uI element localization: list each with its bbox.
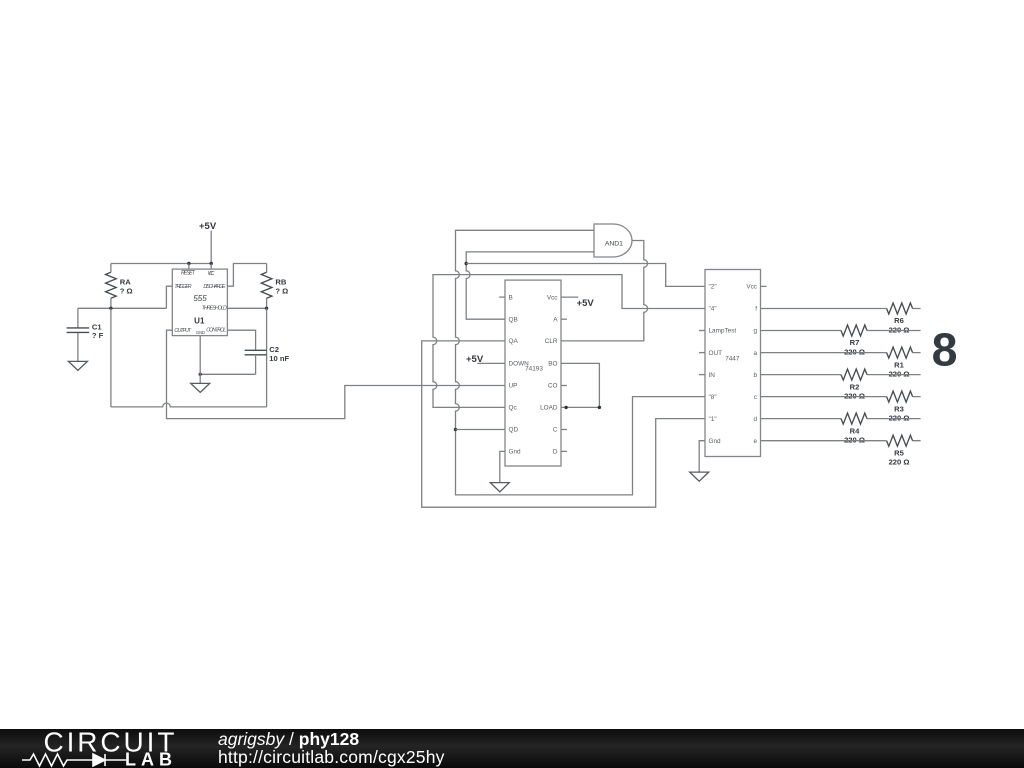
svg-text:R6: R6	[894, 316, 904, 325]
svg-text:THRESHOLD: THRESHOLD	[202, 306, 227, 312]
svg-text:CONTROL: CONTROL	[206, 327, 226, 333]
svg-text:UP: UP	[509, 383, 518, 390]
svg-text:? F: ? F	[92, 331, 104, 340]
svg-text:Qc: Qc	[509, 405, 518, 412]
svg-text:LOAD: LOAD	[540, 405, 558, 412]
svg-text:IN: IN	[709, 372, 716, 379]
wire OUTPUT down-right to UP pin of 74193	[167, 330, 506, 418]
svg-text:C2: C2	[269, 345, 279, 354]
pin stub A	[561, 318, 567, 320]
power flag +5V (DOWN pin)	[466, 354, 505, 365]
svg-text:g: g	[753, 328, 757, 335]
pin stub B	[499, 296, 505, 298]
svg-text:+5V: +5V	[577, 298, 595, 309]
wire TRIGGER	[166, 286, 172, 308]
svg-text:7447: 7447	[725, 355, 740, 362]
svg-text:R7: R7	[850, 338, 860, 347]
ground symbol (7447)	[690, 472, 709, 481]
svg-text:Vcc: Vcc	[746, 284, 757, 291]
ground symbol (74193)	[490, 483, 509, 492]
node junction QB-"2" rail	[465, 262, 468, 265]
svg-text:DISCHARGE: DISCHARGE	[203, 284, 226, 290]
wire THRESHOLD to RB bottom	[227, 307, 266, 309]
pin stub VCC	[210, 264, 212, 270]
wire Qc net: pin Qc up and over to 7447 pin "4" (hops)	[433, 275, 705, 408]
wire bottom link RA-RB columns (hop over OUTPUT wire)	[111, 403, 267, 407]
svg-text:a: a	[753, 350, 757, 357]
power flag +5V (555 supply)	[199, 221, 217, 264]
node junction RB bottom	[265, 307, 268, 310]
svg-text:U1: U1	[194, 317, 205, 326]
svg-text:VCC: VCC	[208, 271, 215, 277]
svg-text:e: e	[753, 438, 757, 445]
wire QA net: pin QA down to 7447 pin "1"	[422, 341, 705, 507]
svg-text:QD: QD	[509, 427, 519, 434]
svg-text:RESET: RESET	[181, 270, 196, 276]
svg-text:R4: R4	[850, 426, 860, 435]
wire QD net: rail to AND1 top input, down to pin 8 of 7447 (hops)	[456, 230, 706, 495]
resistor RB	[261, 264, 288, 309]
svg-text:QB: QB	[509, 316, 518, 323]
svg-text:GND: GND	[196, 330, 206, 335]
node junction RESET-rail	[187, 262, 190, 265]
svg-text:10 nF: 10 nF	[269, 354, 289, 363]
svg-text:? Ω: ? Ω	[120, 286, 133, 295]
svg-text:CO: CO	[548, 383, 558, 390]
svg-text:B: B	[509, 294, 513, 301]
wire TRIGGER rail to C1	[78, 307, 166, 309]
node junction LOAD	[564, 406, 567, 409]
resistor R1 (segment a)	[761, 347, 921, 378]
svg-text:C: C	[553, 427, 558, 434]
svg-text:RB: RB	[275, 278, 286, 287]
node junction VCC-rail	[210, 262, 213, 265]
svg-text:LampTest: LampTest	[709, 328, 737, 335]
svg-text:c: c	[754, 394, 758, 401]
AND gate AND1	[594, 224, 632, 257]
pin stub LampTest	[699, 330, 705, 332]
svg-text:D: D	[553, 449, 558, 456]
pin stub C	[561, 429, 567, 431]
node junction QD	[454, 428, 457, 431]
svg-text:LAB: LAB	[125, 750, 177, 768]
wire top rail (RA top / RESET / VCC)	[111, 263, 211, 265]
wire RA column down	[110, 308, 112, 407]
node junction GND/C2	[199, 373, 202, 376]
ground symbol (C1)	[68, 361, 87, 370]
svg-text:d: d	[753, 416, 757, 423]
op-amp/IC U1 555 box	[172, 269, 227, 336]
wire QD pin	[456, 429, 506, 431]
pin stub RESET	[188, 264, 190, 270]
resistor R6 (segment f)	[761, 303, 921, 334]
svg-text:OUTPUT: OUTPUT	[174, 328, 191, 334]
wire C2 bottom to GND pin	[200, 373, 255, 375]
svg-text:b: b	[753, 372, 757, 379]
svg-text:R3: R3	[894, 404, 904, 413]
pin stub Vcc 74193	[561, 296, 578, 298]
wire Gnd 74193	[500, 451, 505, 482]
wire QB net: pin QB up to AND1 lower input (hop)	[466, 252, 594, 319]
wire AND1 output down to CLR (hops)	[561, 241, 648, 341]
svg-text:+5V: +5V	[199, 221, 217, 232]
svg-text:220 Ω: 220 Ω	[844, 436, 865, 445]
IC U2 74193 box	[505, 280, 561, 466]
svg-text:? Ω: ? Ω	[275, 286, 288, 295]
IC U3 7447 box	[705, 270, 761, 457]
pin stub IN	[699, 374, 705, 376]
svg-text:Gnd: Gnd	[509, 449, 522, 456]
svg-text:R1: R1	[894, 360, 904, 369]
svg-text:agrigsby / phy128: agrigsby / phy128	[218, 729, 359, 749]
svg-text:R5: R5	[894, 448, 904, 457]
svg-text:555: 555	[193, 294, 207, 303]
svg-text:"2": "2"	[709, 284, 717, 291]
pin stub CO	[561, 385, 567, 387]
svg-text:"1": "1"	[709, 416, 717, 423]
pin stub OUT	[699, 352, 705, 354]
ground symbol (U1)	[191, 383, 210, 392]
node junction BO-LOAD corner	[598, 406, 601, 409]
svg-text:f: f	[755, 306, 757, 313]
wire Gnd 7447	[699, 441, 705, 472]
svg-text:BO: BO	[548, 361, 557, 368]
wire GND pin down	[199, 336, 201, 384]
svg-text:AND1: AND1	[605, 240, 623, 247]
svg-text:220 Ω: 220 Ω	[844, 347, 865, 356]
svg-text:A: A	[553, 316, 558, 323]
pin stub D	[561, 450, 567, 452]
wire RB column down	[266, 308, 268, 407]
resistor R5 (segment e)	[761, 435, 921, 466]
svg-text:C1: C1	[92, 322, 102, 331]
svg-text:http://circuitlab.com/cgx25hy: http://circuitlab.com/cgx25hy	[218, 747, 445, 767]
svg-text:CLR: CLR	[545, 338, 558, 345]
svg-text:Vcc: Vcc	[547, 294, 558, 301]
capacitor C2	[245, 345, 290, 374]
wire "2" net to 7447 pin "2"	[466, 264, 705, 287]
svg-text:220 Ω: 220 Ω	[889, 458, 910, 467]
svg-text:QA: QA	[509, 338, 519, 345]
svg-text:Gnd: Gnd	[709, 438, 722, 445]
svg-text:OUT: OUT	[709, 350, 723, 357]
resistor R4 (segment d)	[761, 413, 921, 444]
svg-text:8: 8	[932, 323, 958, 375]
wire CONTROL to C2	[227, 330, 255, 350]
svg-text:74193: 74193	[525, 365, 543, 372]
resistor R2 (segment b)	[761, 369, 921, 400]
wire BO to LOAD	[561, 363, 599, 407]
wire DISCHARGE to RB top	[227, 264, 266, 287]
svg-text:"8": "8"	[709, 394, 717, 401]
capacitor C1	[67, 308, 104, 361]
svg-text:TRIGGER: TRIGGER	[174, 284, 191, 290]
pin stub Vcc 7447	[761, 285, 767, 287]
resistor R7 (segment g)	[761, 325, 921, 356]
CircuitLab logo resistor-diode glyph	[22, 754, 126, 766]
svg-text:RA: RA	[120, 278, 131, 287]
resistor R3 (segment c)	[761, 391, 921, 422]
resistor RA	[106, 264, 133, 309]
svg-text:R2: R2	[850, 382, 860, 391]
node junction RA bottom	[109, 307, 112, 310]
svg-text:"4": "4"	[709, 306, 717, 313]
